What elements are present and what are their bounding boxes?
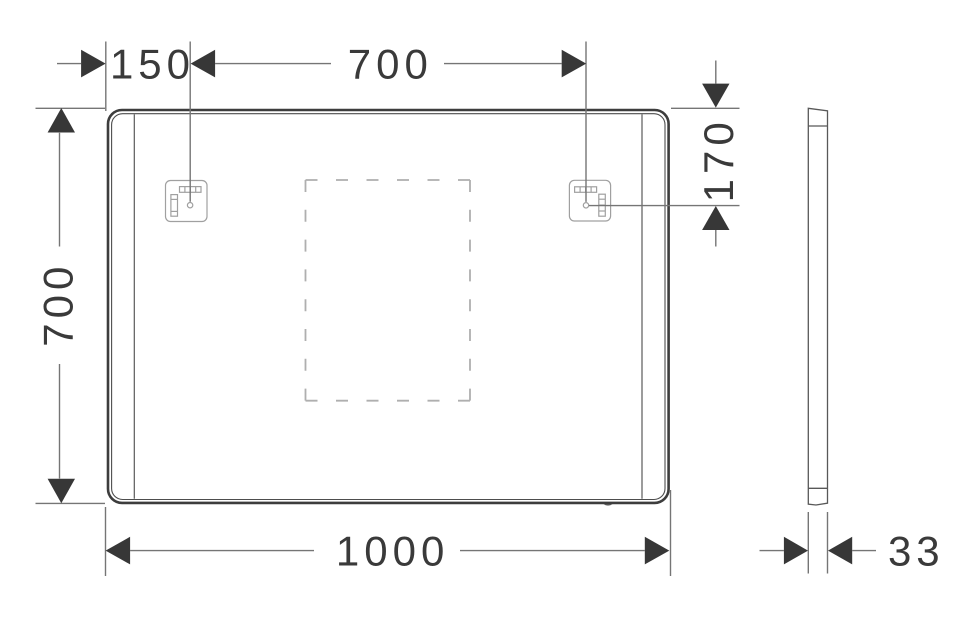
ext line side view left — [807, 512, 809, 574]
ext line left edge top — [105, 42, 107, 112]
ext line 1000 left — [105, 507, 107, 576]
dim line 33 tails — [760, 550, 784, 552]
arrow 150 right / 700 left — [191, 50, 216, 78]
ext line mirror top left — [36, 107, 106, 109]
sensor bump bottom center — [604, 504, 613, 505]
arrow 170 bottom — [702, 206, 729, 230]
svg-text:1000: 1000 — [336, 528, 449, 575]
arrow 700 right — [562, 50, 587, 78]
left wall bracket — [166, 181, 208, 222]
ext line left bracket center — [189, 42, 191, 202]
right wall bracket — [569, 180, 610, 221]
dim line 170 vertical segments — [715, 61, 717, 84]
svg-text:33: 33 — [888, 528, 945, 575]
mirror glass right edge line — [641, 114, 643, 499]
dim line 700 vertical segments — [59, 133, 61, 247]
arrow 700-left bottom — [48, 479, 75, 504]
svg-text:700: 700 — [348, 41, 433, 88]
arrow 1000 right — [645, 537, 670, 565]
mirror front view outer outline — [108, 110, 669, 503]
mirror glass left edge line — [133, 114, 135, 499]
dim line 1000 segments — [130, 550, 314, 552]
ext line mirror bottom left — [36, 502, 106, 504]
side profile view — [808, 108, 827, 505]
arrow 1000 left — [106, 537, 131, 565]
svg-text:150: 150 — [110, 41, 195, 88]
ext line mirror top right — [671, 107, 740, 109]
ext line bracket to 170 dim — [589, 205, 740, 207]
dim line 150/700 horizontal — [57, 63, 81, 65]
ext line side view right — [827, 512, 829, 574]
arrow 700-left top — [48, 108, 75, 133]
ext line right bracket center — [585, 42, 587, 202]
arrow 170 top — [702, 84, 729, 108]
dimension arrows — [48, 50, 853, 565]
svg-text:700: 700 — [35, 262, 82, 347]
mirror front view inner outline — [112, 114, 665, 500]
dashed demister pad rectangle — [306, 180, 471, 401]
ext line 1000 right — [670, 490, 672, 576]
arrow 33 right — [828, 537, 852, 565]
svg-text:170: 170 — [695, 117, 742, 202]
arrow 150 left — [81, 50, 106, 78]
extension and dimension lines — [36, 42, 877, 577]
arrow 33 left — [784, 537, 808, 565]
